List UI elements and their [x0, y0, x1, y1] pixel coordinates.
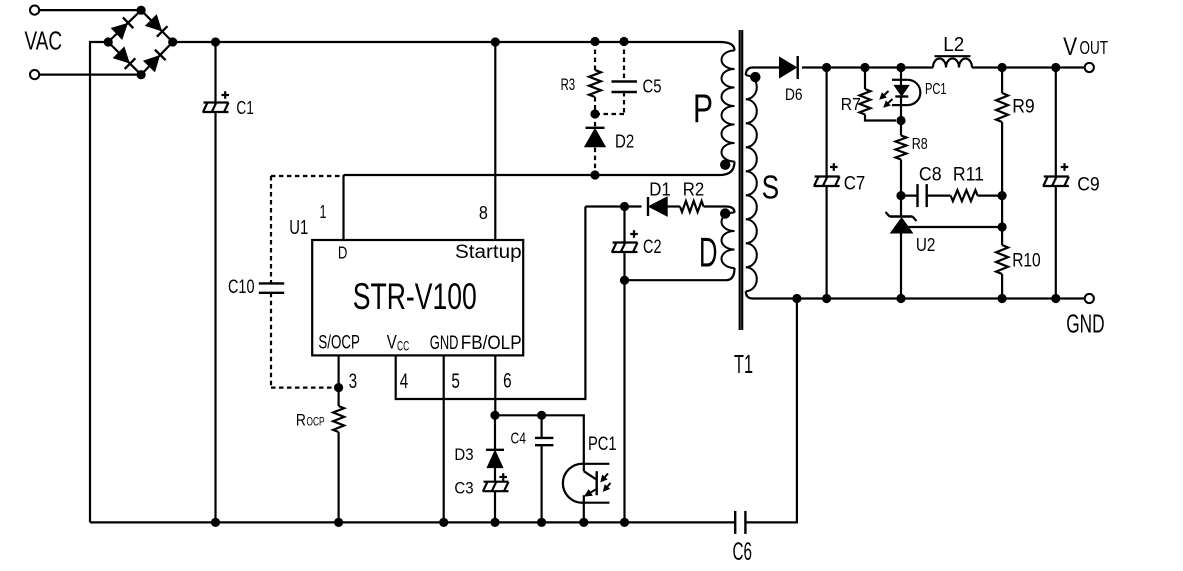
label R2 — [683, 178, 705, 199]
svg-text:V: V — [1063, 33, 1077, 61]
svg-text:OUT: OUT — [1080, 38, 1109, 58]
svg-text:3: 3 — [349, 370, 358, 393]
wire secondary top rail — [753, 66, 1085, 68]
transformer core — [740, 30, 743, 330]
bridge rectifier DB1 — [104, 6, 178, 80]
capacitor C10 — [259, 283, 284, 292]
junction C6-secondary — [792, 294, 801, 303]
pin number 3 — [349, 370, 358, 393]
svg-text:C10: C10 — [228, 277, 255, 298]
terminal VAC bottom — [30, 70, 39, 79]
opto-coupler LED PC1 — [880, 63, 920, 125]
resistor R9 — [996, 63, 1008, 196]
pin number 1 — [320, 202, 327, 222]
capacitor C5 — [595, 37, 637, 114]
svg-text:CC: CC — [397, 338, 409, 354]
label D6 — [785, 85, 803, 104]
svg-text:V: V — [387, 332, 397, 354]
capacitor C2 — [612, 207, 638, 285]
svg-text:D: D — [338, 242, 348, 262]
svg-text:R7: R7 — [841, 94, 861, 114]
svg-text:STR-V100: STR-V100 — [353, 275, 477, 317]
label R7 — [841, 94, 861, 114]
D winding polarity dot — [720, 208, 730, 218]
label VAC — [25, 26, 63, 56]
pin number 6 — [503, 370, 512, 393]
label D2 — [615, 131, 634, 152]
svg-text:4: 4 — [400, 370, 409, 393]
wire pin5 GND — [439, 355, 448, 527]
label C7 — [844, 174, 866, 195]
aux winding D — [625, 213, 735, 281]
wire secondary bottom rail — [753, 297, 1085, 299]
svg-text:R9: R9 — [1012, 97, 1034, 118]
pin label Vcc — [387, 332, 409, 354]
wire negative rail left — [90, 42, 108, 522]
label C2 — [643, 237, 662, 258]
svg-text:6: 6 — [503, 370, 512, 393]
secondary winding S — [746, 68, 757, 299]
inductor L2 — [933, 56, 972, 67]
pin label D — [338, 242, 348, 262]
label P — [693, 87, 713, 131]
label C1 — [236, 98, 254, 118]
pin number 8 — [479, 203, 488, 223]
svg-text:PC1: PC1 — [588, 434, 617, 455]
pin label Startup — [455, 242, 522, 263]
capacitor C4 — [535, 411, 553, 527]
svg-text:D2: D2 — [615, 131, 634, 152]
wire C2 return — [620, 280, 629, 527]
svg-text:VAC: VAC — [25, 26, 63, 56]
diode D2 — [585, 114, 606, 180]
capacitor C7 — [814, 63, 840, 303]
label T1 — [734, 349, 753, 379]
resistor R2 — [666, 201, 735, 213]
svg-text:C7: C7 — [844, 174, 866, 195]
svg-text:1: 1 — [320, 202, 327, 222]
diode D3 — [486, 415, 504, 467]
svg-text:C6: C6 — [733, 538, 753, 566]
wire pin4 Vcc — [396, 207, 586, 400]
svg-text:C1: C1 — [236, 98, 254, 118]
label C6 — [733, 538, 753, 566]
svg-text:R2: R2 — [683, 178, 705, 199]
pin label GND — [430, 332, 459, 354]
label C8 — [919, 165, 942, 186]
terminal VOUT — [1085, 63, 1094, 72]
svg-text:GND: GND — [430, 332, 459, 354]
capacitor C9 — [1043, 63, 1069, 303]
label C3 — [454, 479, 473, 498]
svg-text:Startup: Startup — [455, 242, 522, 263]
wire drain line — [344, 162, 735, 176]
svg-text:R3: R3 — [561, 75, 576, 94]
resistor R11 — [927, 190, 1007, 201]
label D — [699, 229, 718, 276]
svg-text:R11: R11 — [953, 165, 984, 186]
capacitor C1 — [203, 37, 230, 527]
capacitor C8 — [901, 184, 927, 207]
svg-text:T1: T1 — [734, 349, 753, 379]
label C9 — [1077, 175, 1100, 196]
svg-text:PC1: PC1 — [925, 81, 947, 98]
wire pin8 startup — [491, 37, 500, 240]
svg-text:8: 8 — [479, 203, 488, 223]
label STR-V100 — [353, 275, 477, 317]
capacitor C3 — [483, 468, 509, 527]
svg-text:C8: C8 — [919, 165, 942, 186]
resistor ROCP — [333, 388, 344, 527]
pin number 5 — [451, 370, 460, 393]
wire pin1 drain — [342, 175, 344, 240]
svg-text:L2: L2 — [943, 34, 964, 56]
resistor R10 — [996, 196, 1008, 304]
svg-text:S/OCP: S/OCP — [318, 332, 360, 354]
label D1 — [649, 178, 671, 199]
svg-text:P: P — [693, 87, 713, 131]
svg-text:C9: C9 — [1077, 175, 1100, 196]
P winding polarity dot — [720, 160, 730, 170]
svg-text:OCP: OCP — [307, 415, 325, 429]
opto-coupler phototransistor PC1 — [563, 464, 611, 527]
terminal GND — [1085, 294, 1094, 303]
svg-text:S: S — [762, 169, 780, 206]
wire aux cathode — [585, 202, 641, 211]
resistor R8 — [896, 121, 907, 201]
label R10 — [1012, 251, 1040, 272]
wire bottom rail primary — [90, 521, 735, 523]
label PC1 top — [925, 81, 947, 98]
svg-text:R10: R10 — [1012, 251, 1040, 272]
label D3 — [454, 445, 473, 464]
svg-text:U1: U1 — [289, 217, 308, 239]
IC U1 STR-V100 box — [312, 240, 523, 355]
svg-text:C5: C5 — [643, 77, 662, 97]
svg-text:C3: C3 — [454, 479, 473, 498]
capacitor C6 — [735, 299, 797, 534]
svg-text:D3: D3 — [454, 445, 473, 464]
label R11 — [953, 165, 984, 186]
svg-text:FB/OLP: FB/OLP — [461, 332, 522, 354]
label U2 — [916, 235, 936, 255]
wire top rail — [173, 42, 735, 51]
shunt regulator U2 — [886, 196, 1007, 304]
label R3 — [561, 75, 576, 94]
dashed block U1 outline — [271, 176, 344, 388]
resistor R7 — [860, 63, 897, 121]
svg-text:C4: C4 — [511, 431, 527, 448]
label C10 — [228, 277, 255, 298]
pin label FB/OLP — [461, 332, 522, 354]
svg-text:D1: D1 — [649, 178, 671, 199]
resistor R3 — [589, 37, 601, 119]
wire pin6 FB — [490, 355, 583, 463]
S winding polarity dot — [750, 72, 760, 82]
label R8 — [912, 136, 928, 153]
label S — [762, 169, 780, 206]
svg-text:U2: U2 — [916, 235, 936, 255]
svg-text:R8: R8 — [912, 136, 928, 153]
svg-text:D: D — [699, 229, 718, 276]
svg-text:D6: D6 — [785, 85, 803, 104]
label U1 — [289, 217, 308, 239]
label L2 — [943, 34, 964, 56]
label C4 — [511, 431, 527, 448]
pin label S/OCP — [318, 332, 360, 354]
label VOUT — [1063, 33, 1108, 61]
wire AC top — [39, 9, 141, 11]
terminal VAC top — [30, 6, 39, 15]
diode D1 — [648, 197, 667, 216]
wire pin3 — [334, 355, 343, 392]
svg-text:C2: C2 — [643, 237, 662, 258]
pin number 4 — [400, 370, 409, 393]
wire AC bottom — [39, 73, 141, 75]
primary winding P — [722, 51, 735, 162]
label GND — [1066, 309, 1104, 339]
label R9 — [1012, 97, 1034, 118]
diode D6 — [780, 56, 798, 79]
label ROCP — [296, 411, 325, 430]
svg-text:R: R — [296, 411, 306, 430]
label PC1 bottom — [588, 434, 617, 455]
svg-text:GND: GND — [1066, 309, 1104, 339]
label C5 — [643, 77, 662, 97]
svg-text:5: 5 — [451, 370, 460, 393]
